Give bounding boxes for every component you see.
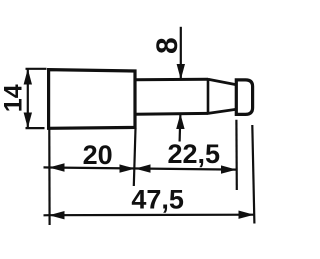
extension line left (x=49)	[48, 129, 50, 226]
arrow 22,5 left (pointing left)	[135, 164, 151, 172]
extension line middle (x=135)	[134, 129, 136, 187]
dim 14 bottom tick	[26, 127, 45, 129]
svg-text:14: 14	[0, 84, 28, 112]
svg-text:22,5: 22,5	[168, 139, 221, 169]
dim 14 top tick	[26, 68, 47, 70]
plug shaft top line	[135, 78, 208, 81]
dim 8 lower line	[179, 114, 182, 142]
arrow 20 right (pointing right)	[120, 164, 136, 172]
plug body rectangle	[49, 70, 135, 129]
dim 8 upper line	[180, 27, 182, 80]
arrow 47,5 left (pointing left)	[49, 211, 65, 219]
dim line 20 / 22,5	[44, 167, 237, 169]
arrow 14 bottom (pointing down)	[24, 113, 32, 129]
arrow 14 top (pointing up)	[24, 69, 32, 85]
dim 14 line	[27, 69, 29, 128]
dim line 47,5	[44, 214, 255, 217]
svg-text:20: 20	[83, 140, 113, 170]
arrow 8 bottom (pointing up)	[176, 114, 184, 129]
svg-text:47,5: 47,5	[131, 185, 184, 215]
tip cap	[236, 78, 252, 116]
arrow 47,5 right (pointing right)	[239, 211, 255, 219]
arrow 8 top (pointing down)	[177, 64, 185, 80]
shaft division line	[207, 78, 210, 114]
extension line far right (x=254)	[252, 125, 254, 224]
svg-text:8: 8	[151, 37, 184, 54]
arrow 20 left (pointing left)	[49, 163, 65, 171]
taper bottom line	[208, 109, 237, 113]
extension line tip start (x=236.5)	[235, 120, 238, 190]
plug shaft bottom line	[135, 112, 208, 116]
arrow 22,5 right (pointing right)	[221, 165, 237, 173]
taper top line	[208, 79, 237, 85]
